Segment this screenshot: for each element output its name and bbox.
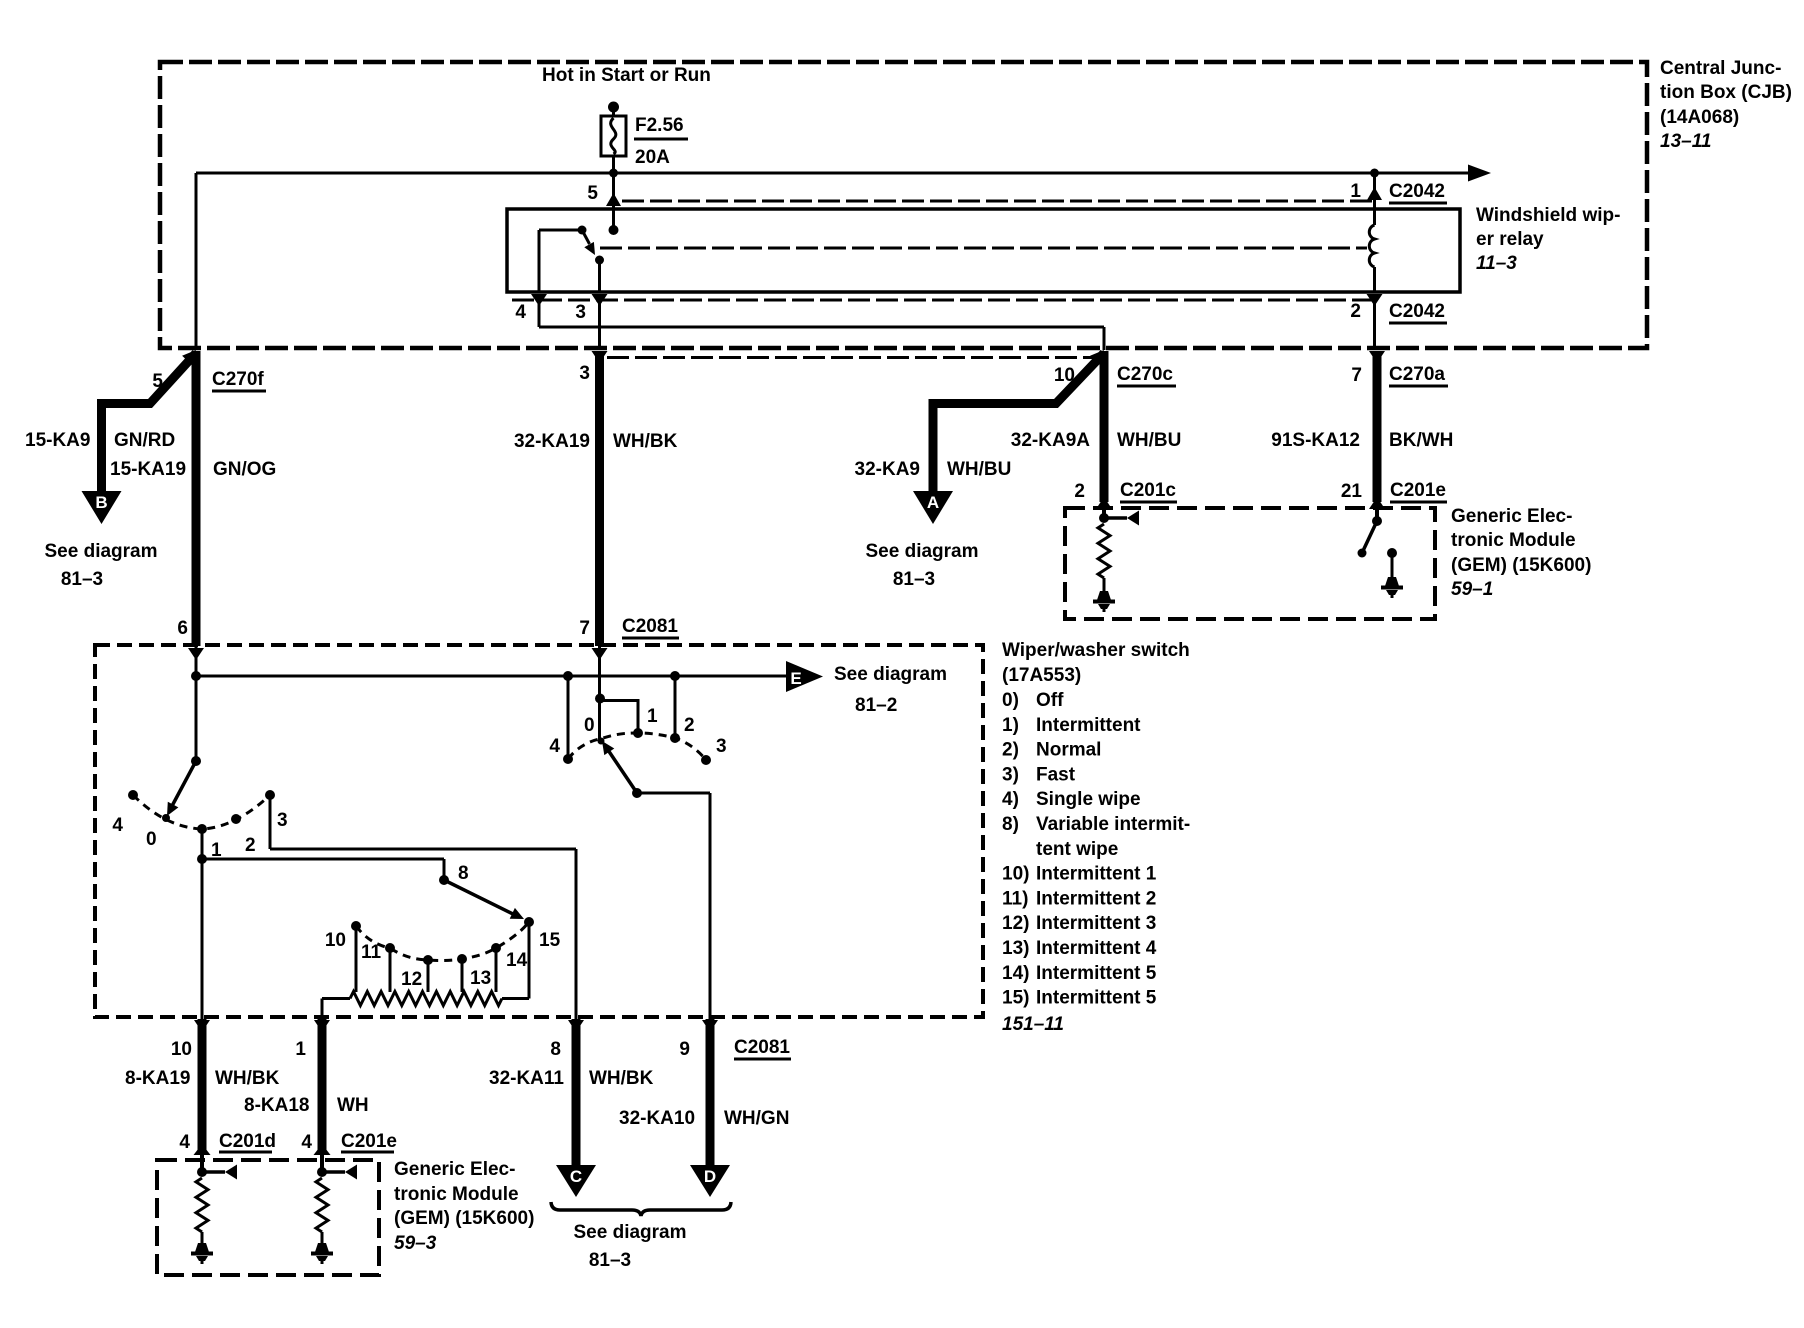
svg-text:tion Box (CJB): tion Box (CJB): [1660, 82, 1792, 103]
svg-text:C201d: C201d: [219, 1131, 276, 1152]
svg-text:13: 13: [470, 968, 491, 989]
svg-text:Fast: Fast: [1036, 764, 1076, 785]
svg-text:15-KA19: 15-KA19: [110, 459, 186, 480]
svg-text:3): 3): [1002, 764, 1019, 785]
svg-text:4: 4: [549, 736, 560, 757]
svg-text:E: E: [790, 669, 801, 688]
svg-text:3: 3: [716, 736, 727, 757]
svg-text:C201c: C201c: [1120, 480, 1176, 501]
svg-text:B: B: [95, 493, 107, 512]
svg-text:5: 5: [152, 371, 163, 392]
svg-text:C2042: C2042: [1389, 181, 1445, 202]
svg-text:8: 8: [550, 1039, 561, 1060]
svg-text:C: C: [570, 1167, 582, 1186]
svg-text:10: 10: [1054, 365, 1075, 386]
svg-text:12): 12): [1002, 913, 1029, 934]
svg-text:14): 14): [1002, 963, 1029, 984]
svg-text:Single wipe: Single wipe: [1036, 789, 1141, 810]
svg-text:11: 11: [361, 942, 382, 963]
svg-text:15): 15): [1002, 988, 1029, 1009]
svg-text:13): 13): [1002, 938, 1029, 959]
svg-text:tronic Module: tronic Module: [394, 1184, 519, 1205]
svg-text:Central Junc-: Central Junc-: [1660, 58, 1781, 79]
svg-text:10): 10): [1002, 864, 1029, 885]
svg-text:4): 4): [1002, 789, 1019, 810]
svg-text:WH: WH: [337, 1095, 369, 1116]
svg-text:4: 4: [515, 302, 526, 323]
svg-text:See diagram: See diagram: [574, 1222, 687, 1243]
svg-text:91S-KA12: 91S-KA12: [1271, 430, 1360, 451]
svg-text:tronic Module: tronic Module: [1451, 530, 1576, 551]
svg-text:C2042: C2042: [1389, 301, 1445, 322]
svg-text:8-KA18: 8-KA18: [244, 1095, 309, 1116]
svg-text:Intermittent 3: Intermittent 3: [1036, 913, 1156, 934]
svg-text:2): 2): [1002, 740, 1019, 761]
svg-text:(14A068): (14A068): [1660, 107, 1739, 128]
svg-text:D: D: [704, 1167, 716, 1186]
svg-text:er relay: er relay: [1476, 229, 1544, 250]
svg-text:1: 1: [295, 1039, 306, 1060]
svg-text:Hot in Start or Run: Hot in Start or Run: [542, 65, 711, 86]
svg-text:8: 8: [458, 863, 469, 884]
svg-text:32-KA10: 32-KA10: [619, 1108, 695, 1129]
svg-text:81–3: 81–3: [589, 1250, 631, 1271]
svg-text:WH/BU: WH/BU: [1117, 430, 1181, 451]
svg-text:2: 2: [1350, 301, 1361, 322]
svg-text:21: 21: [1341, 481, 1363, 502]
svg-text:1: 1: [647, 706, 658, 727]
svg-text:Generic Elec-: Generic Elec-: [394, 1159, 515, 1180]
svg-text:7: 7: [579, 618, 590, 639]
svg-text:GN/RD: GN/RD: [114, 430, 175, 451]
svg-text:(17A553): (17A553): [1002, 665, 1081, 686]
svg-text:Intermittent 4: Intermittent 4: [1036, 938, 1157, 959]
svg-text:12: 12: [401, 969, 422, 990]
svg-text:151–11: 151–11: [1002, 1014, 1064, 1035]
svg-text:C270c: C270c: [1117, 364, 1173, 385]
svg-text:2: 2: [245, 835, 256, 856]
svg-text:3: 3: [277, 810, 288, 831]
svg-text:0): 0): [1002, 690, 1019, 711]
svg-text:5: 5: [587, 183, 598, 204]
svg-text:Variable intermit-: Variable intermit-: [1036, 814, 1190, 835]
svg-text:4: 4: [301, 1132, 312, 1153]
svg-text:WH/BU: WH/BU: [947, 459, 1011, 480]
svg-text:13–11: 13–11: [1660, 131, 1711, 152]
svg-text:Wiper/washer switch: Wiper/washer switch: [1002, 640, 1190, 661]
svg-text:4: 4: [112, 815, 123, 836]
svg-text:GN/OG: GN/OG: [213, 459, 276, 480]
svg-text:3: 3: [575, 302, 586, 323]
svg-text:32-KA19: 32-KA19: [514, 431, 590, 452]
svg-text:Off: Off: [1036, 690, 1064, 711]
svg-text:81–3: 81–3: [893, 569, 935, 590]
svg-text:0: 0: [584, 715, 595, 736]
svg-text:10: 10: [171, 1039, 192, 1060]
svg-text:8-KA19: 8-KA19: [125, 1068, 190, 1089]
svg-text:11–3: 11–3: [1476, 253, 1517, 274]
svg-text:C2081: C2081: [622, 616, 678, 637]
svg-text:Normal: Normal: [1036, 740, 1101, 761]
svg-text:WH/BK: WH/BK: [613, 431, 678, 452]
svg-text:A: A: [927, 493, 939, 512]
svg-text:C201e: C201e: [341, 1131, 397, 1152]
svg-text:WH/BK: WH/BK: [215, 1068, 280, 1089]
svg-text:59–3: 59–3: [394, 1233, 437, 1254]
svg-text:32-KA9A: 32-KA9A: [1011, 430, 1090, 451]
svg-text:15-KA9: 15-KA9: [25, 430, 90, 451]
svg-text:C270f: C270f: [212, 369, 264, 390]
svg-text:59–1: 59–1: [1451, 579, 1493, 600]
svg-text:32-KA9: 32-KA9: [855, 459, 920, 480]
svg-text:20A: 20A: [635, 147, 670, 168]
svg-text:10: 10: [325, 930, 346, 951]
svg-text:See diagram: See diagram: [834, 664, 947, 685]
svg-text:2: 2: [684, 715, 695, 736]
svg-text:1): 1): [1002, 715, 1019, 736]
svg-text:C2081: C2081: [734, 1037, 790, 1058]
svg-text:1: 1: [1350, 181, 1361, 202]
svg-text:7: 7: [1351, 365, 1362, 386]
svg-text:Intermittent 5: Intermittent 5: [1036, 988, 1157, 1009]
svg-text:9: 9: [679, 1039, 690, 1060]
svg-text:15: 15: [539, 930, 561, 951]
svg-text:0: 0: [146, 829, 157, 850]
svg-text:3: 3: [579, 363, 590, 384]
svg-text:See diagram: See diagram: [866, 541, 979, 562]
svg-text:2: 2: [1074, 481, 1085, 502]
svg-text:F2.56: F2.56: [635, 115, 684, 136]
svg-text:Intermittent 5: Intermittent 5: [1036, 963, 1157, 984]
svg-text:Intermittent 1: Intermittent 1: [1036, 864, 1157, 885]
svg-text:C201e: C201e: [1390, 480, 1446, 501]
svg-text:14: 14: [506, 950, 528, 971]
svg-text:Generic Elec-: Generic Elec-: [1451, 506, 1572, 527]
svg-text:Intermittent 2: Intermittent 2: [1036, 888, 1156, 909]
svg-text:81–3: 81–3: [61, 569, 103, 590]
svg-text:WH/BK: WH/BK: [589, 1068, 654, 1089]
svg-text:Intermittent: Intermittent: [1036, 715, 1141, 736]
svg-text:32-KA11: 32-KA11: [489, 1068, 564, 1089]
svg-text:1: 1: [211, 840, 222, 861]
svg-text:Windshield wip-: Windshield wip-: [1476, 205, 1620, 226]
svg-text:(GEM) (15K600): (GEM) (15K600): [394, 1208, 534, 1229]
svg-text:WH/GN: WH/GN: [724, 1108, 789, 1129]
svg-text:(GEM) (15K600): (GEM) (15K600): [1451, 555, 1591, 576]
svg-text:6: 6: [177, 618, 188, 639]
svg-text:4: 4: [179, 1132, 190, 1153]
svg-text:11): 11): [1002, 888, 1028, 909]
svg-text:BK/WH: BK/WH: [1389, 430, 1453, 451]
svg-text:See diagram: See diagram: [45, 541, 158, 562]
svg-text:8): 8): [1002, 814, 1019, 835]
svg-text:81–2: 81–2: [855, 695, 897, 716]
svg-text:C270a: C270a: [1389, 364, 1445, 385]
svg-text:tent wipe: tent wipe: [1036, 839, 1118, 860]
